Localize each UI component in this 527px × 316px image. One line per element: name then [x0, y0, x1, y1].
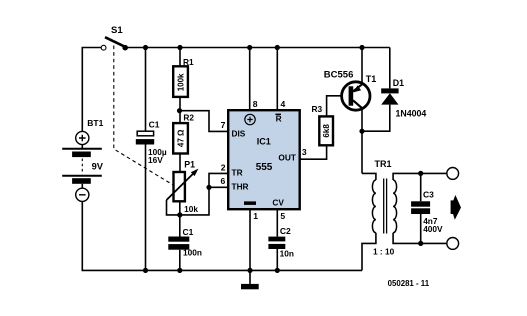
- svg-text:8: 8: [253, 99, 258, 109]
- wire junction to pin 7 DIS: [180, 111, 229, 132]
- node bottom rail C1 branch: [143, 268, 148, 273]
- wire C1 branch lower: [145, 145, 147, 271]
- node top rail pin 4: [275, 45, 280, 50]
- svg-text:OUT: OUT: [278, 153, 296, 163]
- pin 1 wire: [249, 209, 251, 270]
- node C3 top: [418, 171, 423, 176]
- capacitor C1 100n: [168, 227, 202, 258]
- svg-text:9V: 9V: [92, 161, 104, 171]
- svg-text:TR1: TR1: [375, 159, 392, 169]
- svg-text:R: R: [276, 114, 282, 124]
- op IC1 555 box: [228, 110, 300, 209]
- node top rail / R1 branch: [177, 45, 182, 50]
- svg-text:S1: S1: [111, 25, 123, 36]
- pin 3 wire OUT: [300, 145, 327, 159]
- transistor T1 BC556: [324, 69, 377, 110]
- svg-text:400V: 400V: [423, 224, 443, 234]
- HV arrow: [453, 195, 461, 220]
- svg-text:R2: R2: [183, 113, 194, 123]
- capacitor C1 100u electrolytic: [136, 119, 167, 164]
- svg-text:P1: P1: [184, 160, 195, 170]
- svg-text:T1: T1: [366, 74, 377, 84]
- svg-text:100k: 100k: [177, 73, 186, 91]
- wire R3 to base: [327, 96, 349, 117]
- pin 8 wire: [249, 48, 251, 111]
- battery BT1: [62, 118, 104, 201]
- wire pins 2/6 to P1 junction: [180, 173, 228, 215]
- wire top rail (switch to D1 corner): [125, 47, 390, 49]
- resistor R3: [312, 104, 334, 145]
- svg-text:1 : 10: 1 : 10: [373, 247, 395, 257]
- wire top rail left (battery to switch): [82, 48, 101, 132]
- svg-text:6: 6: [221, 176, 226, 186]
- svg-text:1N4004: 1N4004: [396, 108, 427, 118]
- TR1 secondary coil: [393, 180, 397, 233]
- wire bottom rail: [82, 202, 362, 270]
- svg-text:4: 4: [281, 99, 286, 109]
- node top rail emitter: [359, 45, 364, 50]
- node bottom rail pin1: [247, 268, 252, 273]
- output terminal bottom: [447, 238, 459, 250]
- potentiometer P1: [167, 160, 199, 215]
- svg-text:C2: C2: [280, 226, 291, 236]
- node P1 wiper junction: [177, 212, 182, 217]
- wire C2 bottom lead: [276, 249, 278, 270]
- pin 5 wire: [276, 209, 278, 237]
- wire primary top lead: [362, 173, 376, 180]
- node top rail pin 8: [247, 45, 252, 50]
- svg-text:050281 - 11: 050281 - 11: [388, 279, 430, 288]
- svg-text:CV: CV: [272, 197, 284, 207]
- svg-text:7: 7: [221, 120, 226, 130]
- TR1 core: [384, 179, 387, 234]
- output terminal top: [447, 168, 459, 180]
- node pin6 junction: [206, 185, 211, 190]
- ground: [241, 270, 259, 289]
- svg-text:100n: 100n: [183, 248, 202, 258]
- capacitor C3 4n7: [411, 173, 443, 243]
- wire R1 top lead: [179, 48, 181, 67]
- transformer TR1: [362, 159, 397, 270]
- wire secondary bottom: [393, 233, 446, 244]
- dashed link S1 to P1: [114, 46, 176, 187]
- node bottom rail C2: [275, 268, 280, 273]
- wire P1 bottom lead: [179, 201, 181, 237]
- IC1 internal gnd bar: [244, 201, 256, 205]
- svg-text:R3: R3: [312, 104, 323, 114]
- svg-text:DIS: DIS: [232, 129, 246, 139]
- resistor R1: [173, 57, 194, 97]
- resistor R2: [173, 113, 194, 154]
- node C3 bottom: [418, 241, 423, 246]
- wire C1 100n bottom lead: [179, 250, 181, 271]
- node bottom rail P1 branch: [177, 268, 182, 273]
- svg-text:5: 5: [280, 211, 285, 221]
- wire primary bottom lead: [362, 233, 376, 271]
- wire collector down: [361, 109, 363, 173]
- IC1 plus symbol: [245, 114, 255, 124]
- wire pin 6: [209, 186, 228, 188]
- svg-text:BC556: BC556: [324, 69, 354, 80]
- svg-text:C1: C1: [149, 119, 160, 129]
- svg-text:IC1: IC1: [257, 137, 271, 147]
- node R1/R2/pin7 junction: [177, 108, 182, 113]
- svg-text:D1: D1: [393, 78, 404, 88]
- svg-text:C3: C3: [423, 190, 434, 200]
- switch S1: [101, 25, 128, 51]
- wire C1 branch upper: [145, 48, 147, 132]
- svg-text:10k: 10k: [184, 204, 198, 214]
- wire secondary top: [393, 173, 446, 180]
- svg-text:THR: THR: [232, 182, 249, 192]
- wire R1 to R2: [179, 97, 181, 123]
- svg-text:C1: C1: [183, 227, 194, 237]
- IC1 reset Rbar: [275, 114, 281, 124]
- capacitor C2 10n: [268, 226, 293, 258]
- svg-text:2: 2: [221, 163, 226, 173]
- svg-text:3: 3: [302, 147, 307, 157]
- svg-text:16V: 16V: [148, 155, 163, 165]
- node collector/diode junction: [359, 129, 364, 134]
- node top rail / C1 branch: [143, 45, 148, 50]
- wire emitter to top rail: [361, 48, 363, 83]
- svg-text:BT1: BT1: [87, 118, 103, 128]
- wire R2 to P1: [179, 154, 181, 172]
- svg-text:TR: TR: [232, 168, 243, 178]
- svg-text:47 Ω: 47 Ω: [177, 129, 186, 147]
- diode D1 1N4004: [362, 48, 426, 132]
- svg-text:555: 555: [256, 162, 273, 173]
- svg-text:10n: 10n: [280, 249, 294, 259]
- svg-text:1: 1: [253, 211, 258, 221]
- pin 4 wire: [276, 48, 278, 111]
- TR1 primary coil: [372, 180, 376, 233]
- svg-text:6k8: 6k8: [322, 124, 331, 138]
